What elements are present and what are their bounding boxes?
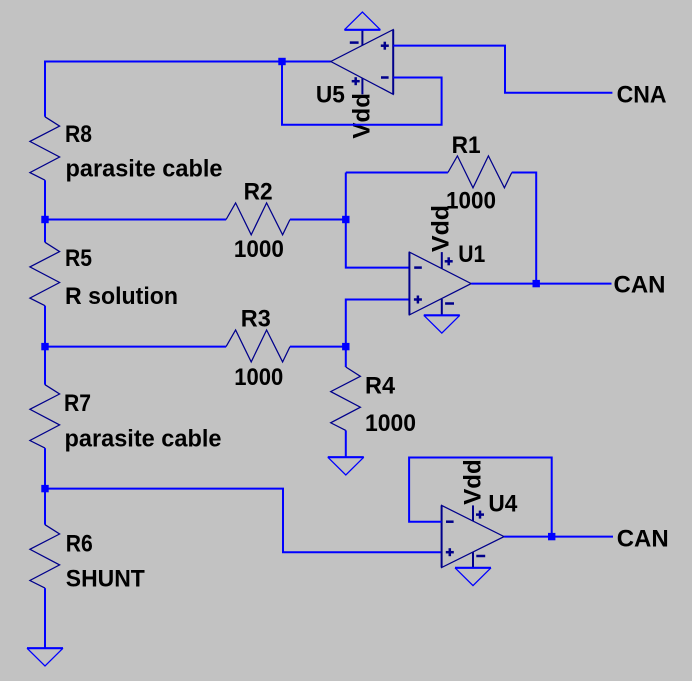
svg-text:R7: R7 <box>64 390 91 417</box>
svg-text:R5: R5 <box>65 245 92 272</box>
svg-text:Vdd: Vdd <box>427 205 454 252</box>
resistor R2 <box>226 203 290 235</box>
svg-text:U4: U4 <box>488 490 518 517</box>
svg-text:1000: 1000 <box>234 364 283 391</box>
svg-text:SHUNT: SHUNT <box>66 565 145 592</box>
wire U5 feedback inverting input <box>282 62 442 125</box>
svg-text:R3: R3 <box>241 305 271 332</box>
node junction rail/U4 <box>41 485 48 492</box>
svg-text:R8: R8 <box>65 121 92 148</box>
svg-text:R solution: R solution <box>65 283 178 310</box>
node junction U4 output <box>548 533 555 540</box>
wire R2 left <box>45 219 226 221</box>
resistor R6 <box>30 525 60 588</box>
node junction U5 output / rail <box>278 58 285 65</box>
wire top horizontal rail to U5 output <box>45 62 331 117</box>
resistor R1 <box>448 156 512 188</box>
wire U4 feedback loop <box>409 458 552 537</box>
wire R3 right to mid node <box>290 346 346 348</box>
wire vertical node to U1 non-inverting input <box>346 300 410 368</box>
node junction R3/R4/U1+ <box>342 343 349 350</box>
node junction rail/R2 <box>41 216 48 223</box>
resistor R5 <box>30 242 60 305</box>
wire rail R7 to R6 <box>44 448 46 525</box>
svg-text:R4: R4 <box>365 373 396 400</box>
svg-text:R6: R6 <box>66 531 93 558</box>
svg-text:Vdd: Vdd <box>460 459 487 505</box>
resistor R3 <box>226 330 290 362</box>
svg-text:Vdd: Vdd <box>348 93 375 139</box>
node junction rail/R3 <box>41 343 48 350</box>
node junction U1 output <box>533 280 540 287</box>
resistor R8 <box>30 117 60 180</box>
ground U1 <box>424 315 460 333</box>
svg-text:R1: R1 <box>452 132 481 159</box>
wire R4 to ground <box>345 430 347 457</box>
wire U1 output to CAN <box>471 283 611 285</box>
svg-text:1000: 1000 <box>365 410 416 437</box>
op-amp U4 <box>442 505 505 567</box>
ground U4 <box>455 568 491 586</box>
resistor R4 <box>331 367 361 430</box>
wire R6 to ground <box>44 588 46 648</box>
svg-text:CAN: CAN <box>614 272 666 299</box>
ground U5 (rotated up) <box>344 12 380 30</box>
wire node to U4 non-inverting input <box>45 489 442 553</box>
wire R3 left <box>45 346 226 348</box>
ground main <box>27 648 63 666</box>
wire R1 left lead <box>346 172 448 174</box>
svg-text:parasite cable: parasite cable <box>66 156 223 183</box>
node junction R2/R1/U1- <box>342 216 349 223</box>
ground R4 <box>328 457 364 475</box>
wire rail R5 to R7 <box>44 306 46 385</box>
resistor R7 <box>30 385 60 448</box>
op-amp U1 <box>409 252 471 315</box>
svg-text:parasite cable: parasite cable <box>65 425 222 452</box>
wire U4 output to CAN <box>504 536 613 538</box>
wire R1 right to U1 output <box>512 173 536 284</box>
op-amp U5 (rotated 180) <box>331 30 393 95</box>
wire U5 non-inverting input to CNA <box>393 46 612 93</box>
svg-text:CNA: CNA <box>617 81 667 108</box>
svg-text:U5: U5 <box>316 82 345 109</box>
wire vertical R1/R2 to U1 inverting input <box>346 173 410 268</box>
wire rail R8 to R5 <box>44 180 46 242</box>
svg-text:CAN: CAN <box>617 525 669 552</box>
svg-text:R2: R2 <box>244 179 273 206</box>
svg-text:1000: 1000 <box>234 236 284 263</box>
wire R2 right to mid node <box>290 219 346 221</box>
svg-text:U1: U1 <box>458 241 485 268</box>
